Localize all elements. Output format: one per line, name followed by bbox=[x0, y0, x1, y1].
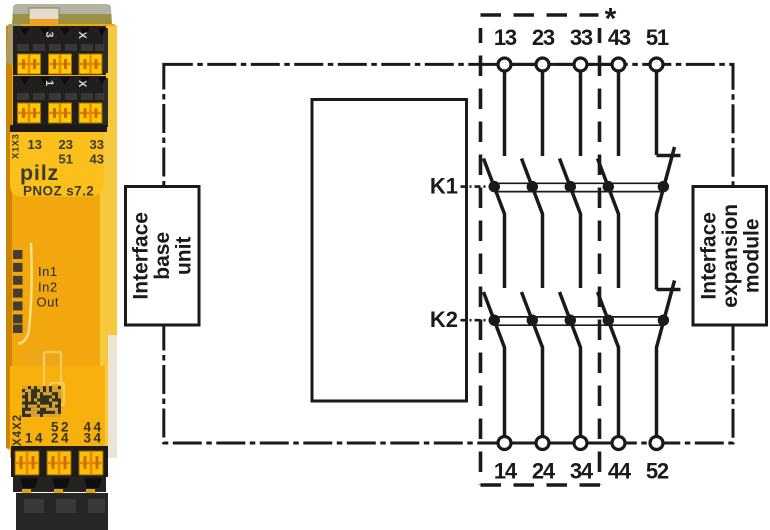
svg-text:Interface: Interface bbox=[130, 212, 153, 300]
svg-text:33: 33 bbox=[570, 25, 593, 50]
svg-text:In2: In2 bbox=[38, 280, 58, 295]
svg-text:base: base bbox=[151, 232, 174, 280]
svg-text:*: * bbox=[605, 3, 617, 36]
svg-text:Out: Out bbox=[37, 295, 59, 310]
svg-text:33: 33 bbox=[90, 137, 104, 152]
svg-text:X: X bbox=[76, 80, 88, 88]
svg-text:Interface: Interface bbox=[698, 212, 721, 300]
svg-text:K1: K1 bbox=[430, 174, 458, 199]
svg-text:In1: In1 bbox=[38, 264, 58, 279]
svg-text:expansion: expansion bbox=[719, 204, 742, 308]
svg-text:44: 44 bbox=[608, 459, 632, 484]
svg-text:23: 23 bbox=[532, 25, 555, 50]
svg-text:13: 13 bbox=[28, 137, 42, 152]
svg-text:X1X3: X1X3 bbox=[11, 134, 22, 159]
svg-text:43: 43 bbox=[90, 152, 104, 167]
svg-text:K2: K2 bbox=[430, 307, 458, 332]
svg-text:24: 24 bbox=[532, 459, 556, 484]
svg-text:51: 51 bbox=[59, 152, 73, 167]
svg-text:13: 13 bbox=[494, 25, 517, 50]
svg-text:52: 52 bbox=[646, 459, 669, 484]
svg-text:23: 23 bbox=[59, 137, 73, 152]
svg-text:X4X2: X4X2 bbox=[12, 414, 24, 446]
svg-text:34: 34 bbox=[570, 459, 594, 484]
svg-text:module: module bbox=[741, 218, 764, 293]
svg-text:PNOZ s7.2: PNOZ s7.2 bbox=[23, 184, 94, 199]
svg-text:1: 1 bbox=[43, 80, 55, 86]
svg-text:14: 14 bbox=[494, 459, 518, 484]
svg-text:14: 14 bbox=[25, 431, 45, 446]
svg-text:34: 34 bbox=[83, 431, 103, 446]
svg-text:1011069 W: 1011069 W bbox=[25, 357, 59, 364]
svg-text:3: 3 bbox=[43, 32, 55, 38]
svg-text:unit: unit bbox=[173, 237, 196, 275]
svg-text:51: 51 bbox=[646, 25, 669, 50]
svg-text:pilz: pilz bbox=[20, 161, 59, 185]
svg-text:24: 24 bbox=[51, 431, 71, 446]
svg-text:X: X bbox=[76, 32, 88, 40]
